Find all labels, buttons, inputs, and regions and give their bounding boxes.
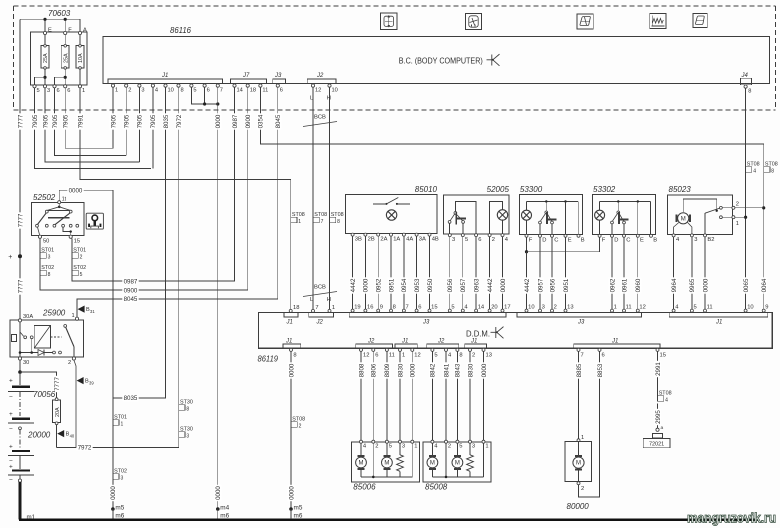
battery negative terminal [19,476,21,480]
svg-text:1A: 1A [393,237,400,243]
wire 0000 D.D.M. to 85008 [483,351,485,440]
svg-text:16: 16 [367,305,373,311]
connector J2 of B.C. [307,79,336,84]
85010 internal switch [373,198,410,205]
connector J1 top-left of D.D.M. [284,313,298,318]
svg-text:J3: J3 [422,320,430,326]
svg-text:3B: 3B [355,237,362,243]
svg-text:0000: 0000 [500,278,507,292]
wire 8885 D.D.M. pin7 to 80000 pin1 [578,351,580,438]
pin 30A of relay 25900 [18,319,21,322]
pin 2 of D.D.M. J1 bottom (8830) [469,348,472,351]
svg-text:2: 2 [554,305,557,311]
wire 0957 53300 to D.D.M. pin 3 [539,237,541,309]
dashed boundary box top edge [14,5,776,7]
inline connector B39 arrow [77,377,84,384]
svg-text:−: − [9,477,13,484]
pin 13 of D.D.M. J1 bottom (8830) [482,348,485,351]
svg-text:80000: 80000 [567,502,590,511]
svg-text:BCB: BCB [314,115,326,121]
pin 2 of 85008 [445,440,448,443]
wire 0950 85010 to D.D.M. J3 pin 15 [429,236,431,309]
dashed boundary right edge [775,6,777,110]
svg-text:53302: 53302 [593,185,616,194]
wire 85023 pin2 to node 0064 [735,207,764,209]
pin 6 of 52005 [475,234,478,237]
junction at pin6 jumper [203,102,206,105]
connector J2 bottom-right of D.D.M. (85008 motors) [427,344,459,348]
pin 1 of D.D.M. J1 bottom-mid [399,348,402,351]
svg-text:31: 31 [90,309,95,314]
svg-text:1: 1 [581,435,584,441]
svg-text:7991: 7991 [77,114,84,128]
pin 5 of 85008 [456,440,459,443]
inline connector B31 arrow on 8045 [78,306,85,313]
svg-text:D: D [614,238,618,244]
svg-text:0956: 0956 [549,278,556,292]
wire fuse F output split [64,69,66,85]
pin 5 of B.C. J1 [190,84,193,87]
svg-text:M: M [455,461,460,467]
svg-text:8830: 8830 [467,363,474,377]
pin B2 of 85023 bottom [704,234,707,237]
wire 8843 D.D.M. to 85008 [456,351,458,440]
svg-text:0000: 0000 [288,363,295,377]
wire 2995 to connector 72021 [657,404,659,429]
svg-text:1: 1 [115,88,118,94]
svg-text:7905: 7905 [124,114,131,128]
wire 0960 53302 to D.D.M. pin 12 [637,237,639,309]
svg-text:2: 2 [472,353,475,359]
svg-text:m5: m5 [294,504,303,511]
wire 0951 85010 to D.D.M. J3 pin 8 [390,236,392,309]
svg-text:3: 3 [121,475,124,481]
pin 6 of B.C. J3 [276,84,279,87]
svg-text:10: 10 [528,305,534,311]
svg-text:0000: 0000 [69,188,83,195]
svg-text:J1: J1 [286,320,293,326]
svg-text:6: 6 [375,353,378,359]
svg-text:20: 20 [491,305,497,311]
junction 85023 pin2 to wire 0064 [762,206,765,209]
svg-text:6: 6 [478,237,481,243]
svg-text:10: 10 [332,88,338,94]
pin 4A of 85010 [402,233,405,236]
svg-text:8843: 8843 [455,363,462,377]
svg-text:2B: 2B [368,237,375,243]
svg-text:0952: 0952 [376,278,383,292]
svg-text:5: 5 [434,353,437,359]
svg-text:4442: 4442 [487,278,494,292]
svg-text:85010: 85010 [415,185,438,194]
pin 3A of 85010 [415,233,418,236]
svg-text:8035: 8035 [163,114,170,128]
svg-text:70603: 70603 [48,9,71,18]
pin 4B of 85010 [428,233,431,236]
wire 0952 85010 to D.D.M. J3 pin 9 [377,236,379,309]
pin 1 of relay 25900 [75,317,78,320]
svg-text:J1: J1 [470,338,477,344]
pin C of 53300 [551,234,554,237]
svg-text:15: 15 [660,353,666,359]
52502 internal contacts [36,204,79,236]
wire CAN-L from J2 pin12 to D.D.M. J2 pin7 [312,87,314,309]
svg-text:0354: 0354 [258,114,265,128]
svg-text:+: + [9,411,13,418]
svg-text:14: 14 [478,305,485,311]
svg-text:40: 40 [70,433,75,438]
svg-text:25900: 25900 [42,309,66,318]
svg-text:1: 1 [614,305,617,311]
wire pin2 to 7972 via B39 [74,360,76,447]
svg-text:3: 3 [472,444,475,450]
svg-text:F: F [602,238,606,244]
fuse 25A (F) [64,35,66,45]
wire 0065 from J4 pin8 to D.D.M. J1 pin10 [745,88,747,309]
pin 11 of B.C. J7 [259,84,262,87]
pin E of 70603 [43,31,46,34]
ground bus [19,518,758,521]
wire 4442 53300 pinF to 53302 pinF and D.D.M. pin10 [526,237,528,251]
wire 7972 from J1 pin8 [57,87,179,447]
svg-text:0987: 0987 [124,278,138,285]
svg-text:2: 2 [299,423,302,429]
wire 0000 85023 to D.D.M. J1 pin 11 [704,237,706,310]
pin 10 of B.C. J1 [164,84,167,87]
svg-text:+: + [9,444,13,451]
wire 8806 D.D.M. to 85006 [372,351,374,440]
pin 4 of 85006 [360,440,363,443]
wire 0962 53302 to D.D.M. pin 1 [611,237,613,309]
wire 8035 from J1 pin10 [113,87,166,398]
wire 0963 52005 to D.D.M. J3 pin 14 [475,237,477,310]
svg-text:8: 8 [181,88,184,94]
pin 18 of D.D.M. J1 top [289,309,292,312]
svg-text:0956: 0956 [447,278,454,292]
pin 2 of 52005 [488,234,491,237]
relay 25900 box [10,320,84,357]
svg-text:8: 8 [771,168,774,174]
svg-text:2A: 2A [380,237,387,243]
connector J2 top of D.D.M. [309,313,334,318]
svg-text:m4: m4 [220,504,229,511]
wire 0000 from J1 pin7 to ground m4 [217,87,219,509]
connector J1 bottom-far-right of D.D.M. [574,344,660,348]
svg-text:30: 30 [23,360,29,366]
85010 internal lamp [386,210,396,220]
battery 20000 cell 1 [19,374,21,385]
svg-text:6: 6 [57,88,60,94]
svg-text:0000: 0000 [110,486,117,500]
connector J1 top-right of D.D.M. [669,313,768,318]
svg-text:7972: 7972 [78,445,92,452]
pin 2 of relay 25900 [72,357,75,360]
wire 7905 fuse pin5 to J1 pin4 [35,88,152,168]
svg-text:1: 1 [402,353,405,359]
svg-text:19: 19 [354,305,360,311]
pin 5 of 52005 [461,234,464,237]
wire 85023 pin1 to node 0065 [735,216,746,218]
svg-text:12: 12 [414,353,420,359]
svg-text:10: 10 [747,305,753,311]
pin 2 of 85006 [372,440,375,443]
pin B of 53302 [650,234,653,237]
53302 internal lamp [595,210,605,220]
svg-text:1: 1 [82,88,85,94]
wire 0000 from 52502 pin1 to ground m5 [59,190,113,509]
svg-text:8806: 8806 [371,363,378,377]
pin 12 of D.D.M. J2 bottom [360,348,363,351]
svg-text:0957: 0957 [460,278,467,292]
pin 4 of B.C. J1 [151,84,154,87]
junction at pin7 jumper [216,102,219,105]
85006 motor 2 [386,443,388,455]
svg-text:H: H [327,297,331,303]
85006 motor 1 [360,443,362,455]
pin 1 of 85006 [411,440,414,443]
svg-text:A: A [83,28,87,34]
wire 7991 fuse pin1 to D.D.M. J1 pin18 [80,88,291,310]
svg-text:6: 6 [67,88,70,94]
wire 2991 D.D.M. pin15 to splice [657,351,659,397]
wire 7777 battery positive feed [19,19,21,372]
svg-text:5: 5 [37,88,40,94]
svg-text:J1: J1 [161,73,168,79]
pin 14 of B.C. J7 [233,84,236,87]
fuse 10A (A) [79,35,81,45]
switch unit 52005 box [443,195,509,234]
svg-text:4: 4 [155,88,158,94]
pin 6 of D.D.M. J2 bottom [372,348,375,351]
pin 6 of B.C. J1 [203,84,206,87]
pin 10 of B.C. J2 [328,84,331,87]
svg-text:85023: 85023 [669,185,692,194]
wire 7777 to fuse 70056 [20,372,57,399]
svg-text:9: 9 [765,305,768,311]
pin 7 of D.D.M. J1 bottom-far-right [577,348,580,351]
svg-text:7: 7 [315,305,318,311]
svg-text:E: E [48,28,52,34]
pin 1A of 85010 [390,233,393,236]
svg-text:J1: J1 [401,338,408,344]
icon symbol 5 (door small) [693,14,707,28]
wire 4442 85010 to D.D.M. J3 pin 19 [352,236,354,309]
pin D of 53302 [611,234,614,237]
svg-text:15: 15 [74,239,80,245]
svg-text:2: 2 [375,444,378,450]
svg-text:9: 9 [380,305,383,311]
pin 6b of 70603 [64,85,67,88]
svg-text:1: 1 [736,221,739,227]
svg-text:8: 8 [293,353,296,359]
wire 9964 85023 to D.D.M. J1 pin 4 [673,237,675,310]
52005 internal lamp [497,210,507,220]
svg-text:J1: J1 [611,338,618,344]
wire battery negative to ground bus m1 [19,482,22,519]
window motor unit 85006 box [351,442,419,482]
svg-text:8808: 8808 [358,363,365,377]
svg-text:D.D.M.: D.D.M. [466,329,490,339]
svg-text:H: H [327,96,331,102]
85006 resistor [399,443,401,455]
pin 50 of 52502 [38,235,41,238]
svg-text:6: 6 [602,353,605,359]
svg-text:2: 2 [492,237,495,243]
ground point m5/m6 middle [289,507,293,511]
svg-text:J4: J4 [741,73,749,79]
inline connector B40 arrow [57,430,64,437]
pin 8 of D.D.M. J1 bottom [290,348,293,351]
svg-text:4B: 4B [432,237,439,243]
connector J1 bottom-left of D.D.M. [283,344,301,348]
svg-text:0065: 0065 [743,278,750,292]
pin 7 of B.C. J1 [216,84,219,87]
pin F of 53300 [525,234,528,237]
svg-text:7905: 7905 [42,114,49,128]
junction on fuse feed at pin F [64,18,67,21]
pin 1 of 80000 [577,439,580,442]
svg-text:13: 13 [486,353,492,359]
svg-text:6: 6 [418,305,421,311]
wire 8809 D.D.M. to 85006 [386,351,388,440]
svg-text:1: 1 [485,444,488,450]
svg-text:8841: 8841 [443,363,450,377]
connector 72021 pigtail [653,434,663,439]
wire fuse 70056 to 7972 via B40 [56,425,58,448]
svg-text:7905: 7905 [52,114,59,128]
fuse 25A (E) [44,35,46,45]
dashed boundary bottom edge [14,109,776,111]
svg-text:4: 4 [753,168,756,174]
svg-text:10: 10 [168,88,174,94]
svg-text:7: 7 [321,219,324,225]
svg-text:0963: 0963 [473,278,480,292]
svg-text:J2: J2 [367,338,375,344]
svg-text:5: 5 [694,305,697,311]
svg-text:2: 2 [736,201,739,207]
85023 internal wiring [674,199,733,235]
svg-text:8: 8 [393,305,396,311]
svg-text:11: 11 [626,305,632,311]
svg-text:5: 5 [389,444,392,450]
relay 25900 internals [12,322,74,357]
svg-text:7905: 7905 [63,114,70,128]
svg-text:M: M [359,461,364,467]
svg-text:1t: 1t [62,197,67,203]
wire CAN-H from J2 pin10 to D.D.M. J2 pin1 [329,87,331,309]
pin F of 53302 [598,234,601,237]
junction on fuse feed at pin E [43,18,46,21]
svg-text:0961: 0961 [621,278,628,292]
svg-text:0000: 0000 [410,363,417,377]
85008 resistor [469,443,471,455]
wire 0000 85010 to D.D.M. J3 pin 16 [364,236,366,309]
svg-text:J3: J3 [577,320,585,326]
svg-text:3: 3 [186,433,189,439]
svg-text:86119: 86119 [258,354,279,363]
pin 3 of 85008 [469,440,472,443]
svg-text:4442: 4442 [350,278,357,292]
svg-text:18: 18 [250,88,256,94]
pin B of 53300 [577,234,580,237]
wire 8808 D.D.M. to 85006 [360,351,362,440]
B.C. network node symbol [487,54,500,66]
svg-text:1: 1 [414,444,417,450]
pin 1 of D.D.M. J2 [328,309,331,312]
85008 motor 2 [456,443,458,455]
junction battery node [18,370,22,374]
wire 8830 D.D.M. to 85006 [399,351,401,440]
svg-text:+: + [8,254,12,261]
battery link dash-dot 1 [19,392,21,416]
svg-text:11: 11 [707,305,713,311]
connector J3 of B.C. [273,79,286,84]
pin 1t of 52502 [58,201,61,204]
pin 8 of D.D.M. J2 bottom-right [456,348,459,351]
svg-text:20A: 20A [55,407,61,417]
wire from pin 50 down [39,238,41,290]
dashed boundary left edge [13,6,15,110]
svg-text:8: 8 [748,89,751,95]
svg-text:52502: 52502 [33,193,56,202]
pin 8 of B.C. J1 [177,84,180,87]
svg-text:J1: J1 [285,338,292,344]
icon symbol 2 (connector) [466,14,482,30]
svg-text:0957: 0957 [537,278,544,292]
svg-text:7: 7 [220,88,223,94]
svg-text:0000: 0000 [363,278,370,292]
connector J4 of B.C. [740,78,751,85]
ignition switch 52502 box [32,203,84,236]
svg-text:8045: 8045 [275,114,282,128]
svg-text:B2: B2 [707,237,714,243]
svg-text:M: M [384,461,389,467]
pin 6 of D.D.M. J1 bottom-far-right [598,348,601,351]
svg-text:7777: 7777 [17,213,24,227]
D.D.M. door module 86119 box [259,313,773,349]
svg-text:0954: 0954 [401,278,408,292]
svg-text:0951: 0951 [388,278,395,292]
svg-text:52005: 52005 [487,185,510,194]
switch unit 53302 box [593,195,656,235]
svg-text:C: C [554,238,558,244]
svg-text:3: 3 [48,254,51,260]
key symbol box [86,213,103,229]
svg-text:0000: 0000 [215,114,222,128]
fuse box 70603 outline [31,32,87,85]
wire 8830 D.D.M. to 85008 [469,351,471,440]
80000 internal motor [578,442,580,456]
svg-text:8: 8 [459,353,462,359]
pin 3 of 70603 [43,85,46,88]
svg-text:30A: 30A [23,314,33,320]
pin 18 of B.C. J7 [246,84,249,87]
wire 0957 52005 to D.D.M. J3 pin 4 [462,237,464,310]
svg-text:72021: 72021 [649,441,664,447]
svg-text:25A: 25A [43,53,49,63]
pin 5 of 70603 [33,85,36,88]
switch unit 85010 box [346,195,438,234]
pin 6a of 70603 [53,85,56,88]
D.D.M. network node symbol [491,327,504,339]
svg-text:0900: 0900 [245,114,252,128]
svg-text:8045: 8045 [124,296,138,303]
svg-text:15: 15 [431,305,437,311]
svg-text:7905: 7905 [150,114,157,128]
svg-text:20000: 20000 [27,431,51,440]
svg-text:0951: 0951 [563,278,570,292]
connector J1 bottom of D.D.M. (8830) [465,344,487,348]
